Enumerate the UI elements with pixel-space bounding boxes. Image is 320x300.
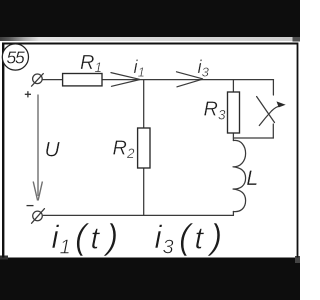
svg-text:t: t — [195, 221, 205, 256]
svg-text:U: U — [45, 139, 61, 162]
svg-text:3: 3 — [163, 237, 174, 259]
svg-text:L: L — [246, 166, 258, 190]
svg-text:1: 1 — [60, 237, 71, 259]
svg-text:t: t — [91, 221, 101, 256]
svg-text:55: 55 — [6, 47, 25, 67]
svg-text:i: i — [52, 219, 60, 255]
svg-text:i: i — [155, 219, 163, 255]
